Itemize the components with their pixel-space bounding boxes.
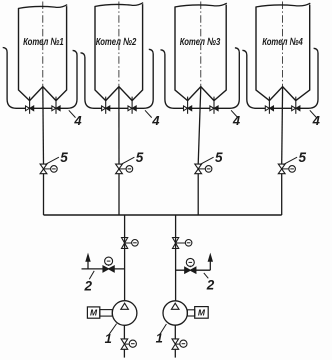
svg-text:4: 4 [232,113,241,128]
svg-text:5: 5 [136,150,144,165]
svg-text:4: 4 [151,113,160,128]
svg-text:1: 1 [105,331,112,346]
svg-text:М: М [90,308,98,318]
svg-text:М: М [198,308,206,318]
svg-text:5: 5 [60,150,68,165]
svg-text:1: 1 [156,331,163,346]
svg-text:5: 5 [298,150,306,165]
svg-text:5: 5 [215,150,223,165]
svg-text:4: 4 [312,113,321,128]
svg-text:Котел №1: Котел №1 [23,36,64,48]
svg-text:2: 2 [84,278,93,293]
svg-text:Котел №4: Котел №4 [262,36,303,48]
svg-text:4: 4 [73,113,82,128]
svg-text:Котел №3: Котел №3 [180,36,221,48]
svg-text:2: 2 [206,278,215,293]
svg-text:Котел №2: Котел №2 [96,36,137,48]
